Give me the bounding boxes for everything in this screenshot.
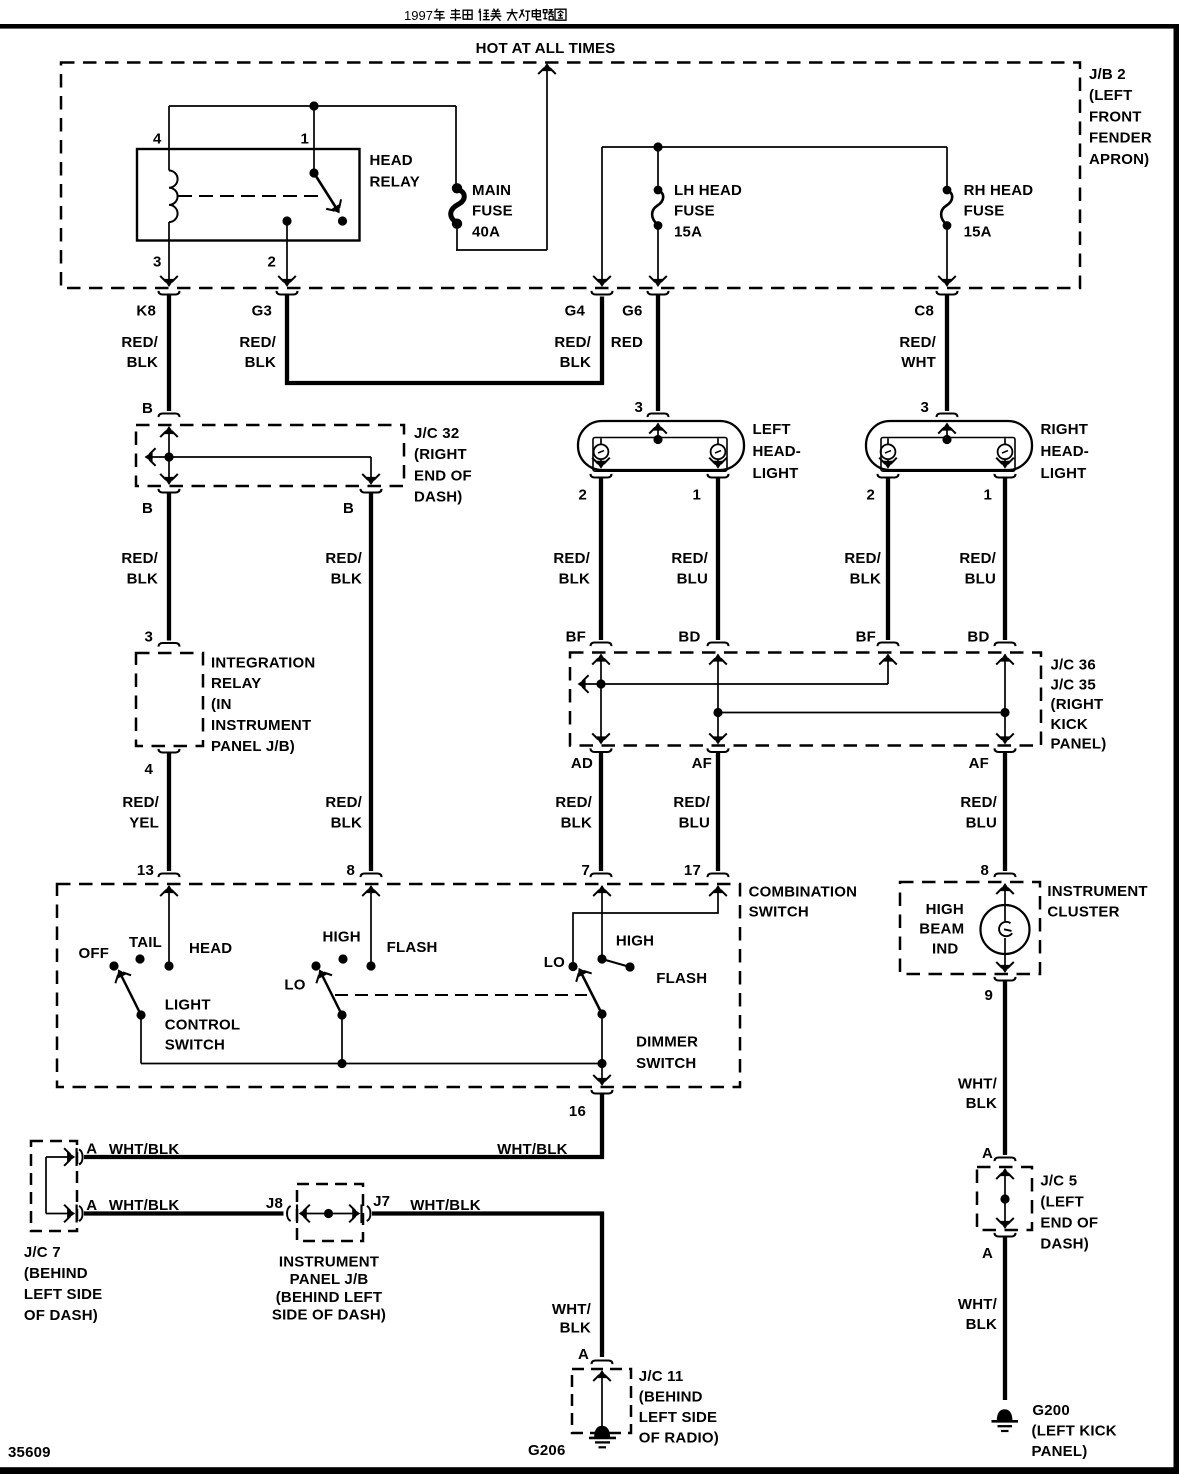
svg-text:BLK: BLK (560, 1320, 591, 1337)
svg-text:15A: 15A (674, 224, 702, 241)
svg-text:RED/: RED/ (239, 334, 276, 351)
svg-text:A: A (86, 1197, 97, 1214)
svg-text:A: A (982, 1245, 993, 1262)
svg-text:WHT/: WHT/ (552, 1301, 592, 1318)
svg-text:BLK: BLK (245, 354, 276, 371)
svg-text:(IN: (IN (211, 696, 232, 713)
svg-text:BLU: BLU (965, 571, 996, 588)
svg-text:BF: BF (856, 628, 876, 645)
svg-text:C8: C8 (914, 303, 934, 320)
svg-text:K8: K8 (136, 303, 156, 320)
svg-text:BLK: BLK (127, 571, 158, 588)
svg-text:BLK: BLK (331, 571, 362, 588)
svg-text:END OF: END OF (1040, 1215, 1098, 1232)
svg-text:J/B 2: J/B 2 (1089, 66, 1126, 83)
svg-text:RH HEAD: RH HEAD (964, 182, 1034, 199)
svg-text:FUSE: FUSE (674, 203, 715, 220)
svg-text:PANEL J/B: PANEL J/B (290, 1271, 369, 1288)
svg-text:J7: J7 (373, 1193, 390, 1210)
svg-text:1997: 1997 (404, 8, 433, 23)
svg-text:(LEFT: (LEFT (1040, 1194, 1084, 1211)
svg-text:LEFT SIDE: LEFT SIDE (24, 1286, 102, 1303)
svg-text:RED/: RED/ (553, 550, 590, 567)
svg-text:CONTROL: CONTROL (165, 1017, 241, 1034)
svg-text:RELAY: RELAY (211, 675, 261, 692)
svg-text:LIGHT: LIGHT (753, 465, 799, 482)
svg-text:BLK: BLK (127, 354, 158, 371)
svg-text:A: A (982, 1145, 993, 1162)
svg-text:FENDER: FENDER (1089, 130, 1152, 147)
svg-text:APRON): APRON) (1089, 151, 1149, 168)
svg-text:J/C 36: J/C 36 (1051, 657, 1096, 674)
svg-text:WHT/: WHT/ (958, 1296, 998, 1313)
svg-text:(BEHIND: (BEHIND (24, 1265, 88, 1282)
svg-text:G200: G200 (1032, 1402, 1070, 1419)
svg-text:RED/: RED/ (673, 794, 710, 811)
svg-text:A: A (578, 1346, 589, 1363)
svg-text:SIDE OF DASH): SIDE OF DASH) (272, 1306, 386, 1323)
svg-text:PANEL): PANEL) (1032, 1443, 1088, 1460)
svg-text:G6: G6 (622, 303, 642, 320)
svg-text:SWITCH: SWITCH (749, 904, 809, 921)
svg-text:RED/: RED/ (554, 334, 591, 351)
svg-text:RED/: RED/ (959, 550, 996, 567)
svg-text:INTEGRATION: INTEGRATION (211, 654, 315, 671)
svg-text:YEL: YEL (129, 814, 159, 831)
svg-text:FUSE: FUSE (964, 203, 1005, 220)
svg-text:LEFT: LEFT (753, 421, 791, 438)
svg-text:OFF: OFF (79, 945, 110, 962)
svg-text:BLK: BLK (850, 571, 881, 588)
svg-text:HOT AT ALL TIMES: HOT AT ALL TIMES (476, 40, 616, 57)
svg-text:LO: LO (544, 954, 565, 971)
svg-text:(LEFT: (LEFT (1089, 87, 1133, 104)
svg-text:OF RADIO): OF RADIO) (639, 1429, 719, 1446)
svg-text:B: B (142, 400, 153, 417)
svg-text:RED/: RED/ (899, 334, 936, 351)
svg-text:RED/: RED/ (671, 550, 708, 567)
svg-text:HEAD: HEAD (189, 940, 232, 957)
svg-text:BLK: BLK (966, 1095, 997, 1112)
svg-text:G4: G4 (565, 303, 586, 320)
svg-text:(BEHIND LEFT: (BEHIND LEFT (276, 1289, 383, 1306)
svg-text:J/C 35: J/C 35 (1051, 676, 1096, 693)
svg-text:RELAY: RELAY (370, 173, 420, 190)
svg-text:WHT/BLK: WHT/BLK (109, 1197, 180, 1214)
svg-text:LEFT SIDE: LEFT SIDE (639, 1409, 717, 1426)
svg-text:RIGHT: RIGHT (1041, 421, 1089, 438)
svg-text:BD: BD (678, 628, 700, 645)
svg-text:9: 9 (984, 987, 993, 1004)
svg-text:RED/: RED/ (121, 334, 158, 351)
svg-text:BLK: BLK (560, 354, 591, 371)
svg-text:INSTRUMENT: INSTRUMENT (279, 1254, 379, 1271)
svg-text:FRONT: FRONT (1089, 108, 1142, 125)
svg-text:RED/: RED/ (960, 794, 997, 811)
svg-text:HIGH: HIGH (323, 929, 361, 946)
svg-text:BLK: BLK (331, 814, 362, 831)
svg-text:OF DASH): OF DASH) (24, 1307, 98, 1324)
svg-text:DIMMER: DIMMER (636, 1034, 698, 1051)
svg-text:WHT: WHT (901, 354, 936, 371)
svg-text:RED/: RED/ (844, 550, 881, 567)
svg-text:A: A (86, 1141, 97, 1158)
svg-text:DASH): DASH) (414, 489, 463, 506)
svg-text:1: 1 (300, 131, 309, 148)
svg-text:BLU: BLU (966, 814, 997, 831)
svg-text:B: B (142, 500, 153, 517)
svg-text:7: 7 (581, 862, 590, 879)
svg-text:SWITCH: SWITCH (636, 1055, 696, 1072)
svg-text:3: 3 (153, 254, 162, 271)
svg-text:2: 2 (267, 254, 276, 271)
svg-text:(BEHIND: (BEHIND (639, 1388, 703, 1405)
svg-text:AD: AD (571, 755, 593, 772)
svg-text:(RIGHT: (RIGHT (414, 446, 467, 463)
svg-text:END OF: END OF (414, 467, 472, 484)
svg-text:TAIL: TAIL (129, 934, 162, 951)
svg-text:40A: 40A (472, 224, 500, 241)
svg-text:B: B (343, 500, 354, 517)
svg-text:2: 2 (578, 487, 587, 504)
svg-text:4: 4 (144, 761, 153, 778)
svg-text:CLUSTER: CLUSTER (1047, 904, 1119, 921)
svg-text:16: 16 (569, 1103, 586, 1120)
svg-text:SWITCH: SWITCH (165, 1037, 225, 1054)
svg-text:RED/: RED/ (325, 794, 362, 811)
svg-text:BLU: BLU (677, 571, 708, 588)
svg-text:17: 17 (684, 862, 701, 879)
svg-text:HEAD: HEAD (370, 152, 413, 169)
svg-text:J8: J8 (266, 1195, 283, 1212)
svg-text:LO: LO (284, 977, 305, 994)
svg-text:1: 1 (692, 487, 701, 504)
svg-text:FUSE: FUSE (472, 203, 513, 220)
svg-text:3: 3 (634, 399, 643, 416)
svg-text:HIGH: HIGH (616, 933, 654, 950)
svg-text:LH HEAD: LH HEAD (674, 182, 742, 199)
svg-text:INSTRUMENT: INSTRUMENT (211, 717, 311, 734)
svg-text:PANEL): PANEL) (1051, 736, 1107, 753)
svg-text:RED/: RED/ (121, 550, 158, 567)
svg-text:G206: G206 (528, 1442, 566, 1459)
svg-text:BLK: BLK (559, 571, 590, 588)
svg-text:BF: BF (566, 628, 586, 645)
svg-text:WHT/: WHT/ (958, 1076, 998, 1093)
svg-text:J/C 5: J/C 5 (1040, 1173, 1077, 1190)
svg-text:AF: AF (692, 755, 712, 772)
svg-text:RED: RED (611, 334, 643, 351)
svg-text:RED/: RED/ (325, 550, 362, 567)
svg-text:LIGHT: LIGHT (165, 997, 211, 1014)
svg-text:1: 1 (983, 487, 992, 504)
svg-text:4: 4 (153, 131, 162, 148)
svg-text:HEAD-: HEAD- (753, 443, 802, 460)
svg-text:3: 3 (920, 399, 929, 416)
svg-text:IND: IND (932, 940, 958, 957)
svg-text:8: 8 (346, 862, 355, 879)
svg-text:J/C 7: J/C 7 (24, 1244, 61, 1261)
svg-text:KICK: KICK (1051, 716, 1088, 733)
svg-text:3: 3 (144, 629, 153, 646)
svg-text:BLU: BLU (679, 814, 710, 831)
svg-text:LIGHT: LIGHT (1041, 465, 1087, 482)
svg-text:FLASH: FLASH (387, 939, 438, 956)
svg-text:DASH): DASH) (1040, 1236, 1089, 1253)
svg-text:WHT/BLK: WHT/BLK (497, 1141, 568, 1158)
svg-text:COMBINATION: COMBINATION (749, 884, 858, 901)
svg-text:15A: 15A (964, 224, 992, 241)
svg-text:PANEL J/B): PANEL J/B) (211, 738, 295, 755)
svg-text:FLASH: FLASH (656, 970, 707, 987)
svg-text:13: 13 (137, 862, 154, 879)
svg-text:BEAM: BEAM (919, 921, 964, 938)
svg-text:WHT/BLK: WHT/BLK (109, 1141, 180, 1158)
svg-text:AF: AF (969, 755, 989, 772)
svg-text:MAIN: MAIN (472, 182, 511, 199)
svg-text:RED/: RED/ (122, 794, 159, 811)
svg-text:(LEFT KICK: (LEFT KICK (1032, 1422, 1117, 1439)
svg-text:G3: G3 (252, 303, 272, 320)
svg-text:HIGH: HIGH (926, 901, 964, 918)
svg-text:BLK: BLK (966, 1316, 997, 1333)
svg-text:J/C 11: J/C 11 (639, 1368, 684, 1385)
svg-text:35609: 35609 (8, 1444, 51, 1461)
svg-text:HEAD-: HEAD- (1041, 443, 1090, 460)
svg-text:RED/: RED/ (555, 794, 592, 811)
svg-text:2: 2 (866, 487, 875, 504)
svg-text:BLK: BLK (561, 814, 592, 831)
svg-text:(RIGHT: (RIGHT (1051, 696, 1104, 713)
svg-text:J/C 32: J/C 32 (414, 425, 459, 442)
svg-text:INSTRUMENT: INSTRUMENT (1047, 883, 1147, 900)
svg-text:8: 8 (980, 862, 989, 879)
svg-text:BD: BD (967, 628, 989, 645)
